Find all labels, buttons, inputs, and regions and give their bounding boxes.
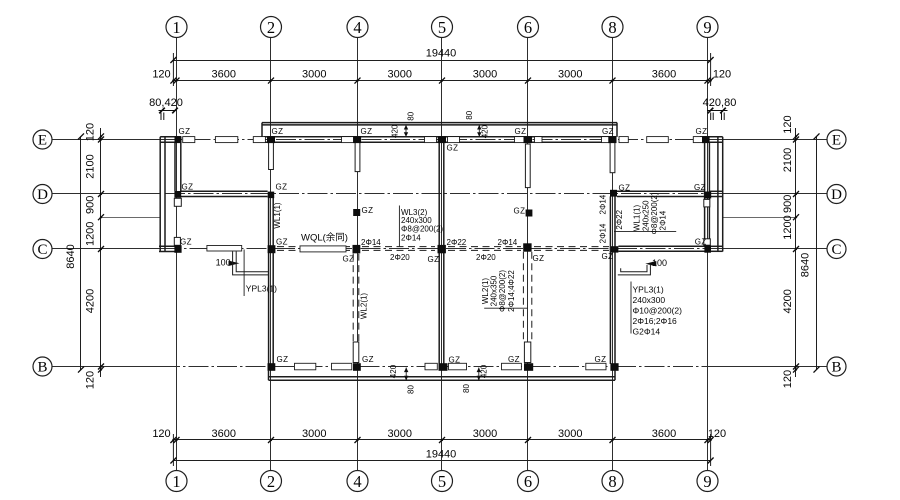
beam cap rect above B axis6 — [524, 342, 530, 363]
lintel E left of 9 — [693, 137, 703, 143]
wall D row axis9-outer — [709, 190, 722, 192]
top dim texts — [149, 48, 736, 110]
grid line axis 1 — [176, 38, 178, 471]
svg-text:3600: 3600 — [212, 428, 236, 440]
GZ COLUMN SQUARES — [174, 136, 711, 371]
extension line left outer edge top — [172, 53, 174, 86]
bubble 9 top — [697, 17, 718, 38]
extension line right outer edge top — [710, 53, 712, 86]
column GZ E-6 — [524, 136, 533, 143]
svg-text:120: 120 — [152, 69, 170, 81]
right overall dim line 8640 — [816, 136, 818, 369]
left dim texts rotated — [65, 123, 97, 389]
bubble 2 top — [261, 17, 282, 38]
svg-text:420,80: 420,80 — [703, 97, 737, 109]
svg-text:4: 4 — [353, 472, 361, 491]
beam rect above C axis1 — [174, 237, 180, 245]
svg-text:2Φ20: 2Φ20 — [476, 253, 496, 262]
svg-text:E: E — [38, 133, 47, 149]
column GZ E-5 — [438, 136, 446, 143]
bubble E left — [33, 130, 52, 149]
svg-text:6: 6 — [524, 472, 532, 491]
svg-text:3000: 3000 — [473, 428, 497, 440]
grid line axis 8 — [612, 38, 614, 471]
svg-text:2Φ14: 2Φ14 — [598, 223, 607, 243]
svg-text:GZ: GZ — [595, 355, 607, 364]
cantilever beam step left — [233, 252, 268, 275]
column GZ B-2 — [268, 363, 276, 371]
svg-text:100: 100 — [216, 258, 231, 268]
svg-text:120: 120 — [85, 123, 97, 141]
svg-text:19440: 19440 — [426, 449, 457, 461]
column GZ B-8 — [610, 363, 618, 371]
lintel E left of 5 — [425, 137, 437, 143]
grid line axis 6 — [527, 38, 529, 471]
cantilever beam step right — [618, 265, 651, 275]
lintel E left of 8 — [602, 137, 611, 143]
column GZ E-1 — [175, 136, 182, 143]
svg-text:3600: 3600 — [652, 69, 676, 81]
lintel E right of 8 — [619, 137, 628, 143]
lintel C WQL beam — [300, 246, 346, 252]
svg-text:G2Φ14: G2Φ14 — [633, 327, 661, 337]
beam spec block YPL3(1) right — [633, 285, 683, 337]
bubble 8 top — [602, 17, 623, 38]
svg-text:2Φ22: 2Φ22 — [615, 209, 624, 229]
svg-text:Φ8@200(2): Φ8@200(2) — [401, 225, 443, 234]
grid line axis C interior — [161, 248, 721, 250]
eaves offset dim 420/80 bottom near axis5 left — [389, 364, 416, 394]
svg-text:D: D — [831, 187, 842, 203]
beam C row dashed 2-4 — [277, 246, 350, 248]
offset arrow left — [229, 261, 240, 266]
svg-text:2Φ14: 2Φ14 — [598, 194, 607, 214]
bubble 8 bottom — [602, 471, 623, 492]
beam spec block WL2(1) axis6 leader — [484, 307, 528, 309]
grid line axis D margins — [52, 193, 160, 195]
lintel B right of 5 — [449, 363, 467, 370]
svg-text:3000: 3000 — [473, 69, 497, 81]
lintel B left of 6 — [502, 363, 522, 370]
tick dots — [100, 79, 797, 441]
svg-text:4200: 4200 — [782, 289, 794, 313]
beam rect above C axis9 — [704, 239, 711, 245]
grid line axis E margins — [52, 139, 162, 141]
GZ LABELS — [179, 127, 708, 365]
svg-text:GZ: GZ — [449, 356, 461, 365]
hanging beam rect below D axis1 — [174, 198, 181, 206]
offset arrow right — [645, 261, 656, 266]
svg-text:YPL3(1): YPL3(1) — [633, 285, 664, 295]
svg-text:120: 120 — [713, 69, 731, 81]
svg-text:9: 9 — [703, 18, 711, 37]
svg-text:GZ: GZ — [180, 238, 192, 247]
svg-text:GZ: GZ — [276, 183, 288, 192]
svg-text:80: 80 — [407, 111, 416, 120]
svg-text:120: 120 — [85, 371, 97, 389]
lintel E 1-2 a — [183, 137, 195, 143]
svg-text:19440: 19440 — [426, 48, 457, 60]
beam C row dashed 5-6 — [448, 246, 521, 248]
lintel E left of 6 — [515, 137, 527, 143]
svg-text:240x300: 240x300 — [633, 295, 666, 305]
mini dim marks top-right near axis 9 — [707, 108, 728, 120]
wall E row main (axis 2 to 8) — [264, 136, 616, 138]
svg-text:3000: 3000 — [302, 428, 326, 440]
beam spec block YPL3(1) right leader — [630, 282, 632, 334]
svg-text:GZ: GZ — [619, 184, 631, 193]
column GZ C-6 — [523, 243, 531, 251]
GRIDLINES — [177, 38, 708, 471]
beam spec block WL1(1) axis8-9 leader — [614, 231, 676, 233]
svg-text:WL1(1): WL1(1) — [273, 202, 282, 229]
lintel E right of 6 — [535, 137, 543, 143]
bottom dim texts — [152, 428, 726, 461]
beam WL2(1) axis4 C-B — [352, 254, 354, 342]
column GZ C-4 — [353, 245, 361, 253]
svg-text:GZ: GZ — [602, 252, 614, 261]
hanging beam rect below E axis6 — [525, 144, 530, 188]
eaves offset dim 420/80 top near axis5 left — [391, 111, 416, 138]
svg-text:80: 80 — [462, 384, 471, 393]
svg-text:2Φ20: 2Φ20 — [390, 253, 410, 262]
column GZ B-4 — [353, 363, 361, 371]
grid line axis C margins — [52, 248, 161, 250]
svg-text:GZ: GZ — [695, 238, 707, 247]
bubble 1 bottom — [166, 471, 187, 492]
column GZ mid-4 — [353, 209, 360, 216]
beam spec block WL3(2) leader — [398, 206, 400, 247]
tick marks right chain — [793, 133, 820, 372]
wall C row axis8-9 — [618, 245, 704, 247]
bubble C left — [33, 240, 52, 259]
svg-text:1: 1 — [172, 472, 180, 491]
svg-text:120: 120 — [708, 428, 726, 440]
svg-text:GZ: GZ — [428, 255, 440, 264]
bubble D right — [827, 185, 846, 204]
svg-text:1: 1 — [172, 18, 180, 37]
hanging beam rect below E axis2 — [269, 142, 274, 169]
hanging beam rect below D axis9 — [704, 199, 710, 207]
bubble 1 top — [166, 17, 187, 38]
right chain dim line — [795, 128, 797, 377]
svg-text:80: 80 — [465, 110, 474, 119]
grid line axis D interior — [165, 193, 721, 195]
tick marks bottom chain — [170, 437, 713, 464]
svg-text:B: B — [831, 360, 841, 376]
svg-text:2Φ14: 2Φ14 — [361, 238, 381, 247]
svg-text:GZ: GZ — [276, 238, 288, 247]
wall C row porch bottom — [159, 245, 181, 247]
svg-text:3000: 3000 — [558, 69, 582, 81]
svg-text:3600: 3600 — [652, 428, 676, 440]
svg-text:YPL3(1): YPL3(1) — [246, 284, 277, 294]
tick marks top chain — [170, 57, 713, 84]
svg-text:2100: 2100 — [782, 148, 794, 172]
column GZ E-4 — [353, 136, 361, 143]
LINTEL RECTS E ROW — [183, 137, 704, 370]
svg-text:GZ: GZ — [362, 355, 374, 364]
extension line left outer edge bottom — [172, 434, 174, 466]
svg-text:3000: 3000 — [302, 69, 326, 81]
intermediate 900 line right — [723, 217, 796, 219]
svg-text:GZ: GZ — [179, 127, 191, 136]
svg-text:2Φ14: 2Φ14 — [659, 210, 668, 230]
svg-text:2: 2 — [267, 18, 275, 37]
svg-text:D: D — [37, 187, 48, 203]
WALLS — [159, 123, 723, 381]
grid line axis 2 — [270, 38, 272, 471]
eaves line below B — [269, 376, 616, 378]
svg-text:420: 420 — [481, 124, 490, 138]
bubble E right — [827, 130, 846, 149]
top chain dim line — [173, 80, 710, 82]
intermediate 900 line left — [101, 217, 161, 219]
svg-text:GZ: GZ — [602, 127, 614, 136]
grid line axis B interior — [160, 366, 721, 368]
beam spec block WL3(2) — [401, 208, 443, 243]
column GZ B-5 — [439, 363, 448, 371]
beam spec block WL1(1) axis8-9 rotated — [633, 192, 668, 234]
lintel E 1-2 b — [215, 137, 237, 143]
wall C row axis9-outer — [709, 245, 722, 247]
svg-text:GZ: GZ — [514, 207, 526, 216]
svg-text:900: 900 — [782, 195, 794, 213]
svg-text:1200: 1200 — [782, 215, 794, 239]
svg-text:80,420: 80,420 — [149, 97, 183, 109]
bubble 4 bottom — [347, 471, 368, 492]
svg-text:2: 2 — [267, 472, 275, 491]
svg-text:6: 6 — [524, 18, 532, 37]
lintel E 1-2 c — [253, 137, 265, 143]
eaves offset dim 420/80 top near axis5 right — [465, 110, 490, 138]
grid line axis 4 — [357, 38, 359, 471]
svg-text:E: E — [832, 133, 841, 149]
svg-text:3000: 3000 — [388, 69, 412, 81]
eaves line above E — [262, 122, 617, 124]
column GZ E-2 — [267, 136, 275, 143]
bubble 5 top — [432, 17, 453, 38]
svg-text:GZ: GZ — [361, 127, 373, 136]
beam C row dashed 4-5 — [362, 246, 435, 248]
svg-text:2Φ14: 2Φ14 — [401, 233, 421, 242]
bubble D left — [33, 185, 52, 204]
lintel B left of 8 — [586, 363, 606, 370]
hanging beam rect below E axis8 — [610, 142, 615, 173]
lintel B left of 4 — [332, 363, 352, 370]
column GZ D-8 — [610, 190, 617, 197]
svg-text:9: 9 — [703, 472, 711, 491]
svg-text:5: 5 — [438, 18, 446, 37]
lintel B left of 5 — [425, 363, 437, 370]
svg-text:GZ: GZ — [508, 355, 520, 364]
svg-text:2100: 2100 — [85, 154, 97, 178]
grid line axis 5 — [441, 38, 443, 471]
wall axis5 vertical E to B — [438, 142, 440, 364]
svg-text:WL2(1): WL2(1) — [359, 293, 368, 320]
column GZ B-6 — [524, 363, 533, 371]
svg-text:8640: 8640 — [65, 244, 77, 268]
column GZ C-8 — [611, 246, 618, 252]
bubble B right — [827, 357, 846, 376]
eaves offset dim 420/80 bottom near axis5 right — [462, 364, 489, 393]
beam cap rect above B axis4 — [353, 342, 359, 363]
left chain dim line — [100, 128, 102, 377]
svg-text:C: C — [831, 242, 841, 258]
column GZ E-8 — [608, 136, 616, 143]
bubble 2 bottom — [261, 471, 282, 492]
svg-text:4200: 4200 — [85, 289, 97, 313]
wall axis9 vertical E to C — [704, 142, 706, 245]
svg-text:8: 8 — [608, 18, 616, 37]
beam label YPL3(1) left leader — [243, 250, 245, 297]
column GZ D-1 — [174, 191, 181, 198]
svg-text:420: 420 — [391, 124, 400, 138]
svg-text:120: 120 — [782, 115, 794, 133]
wall axis2 vertical D to B — [268, 198, 270, 364]
svg-text:GZ: GZ — [343, 255, 355, 264]
svg-text:3600: 3600 — [212, 69, 236, 81]
bubble C right — [827, 240, 846, 259]
column GZ mid-6 — [526, 210, 533, 217]
top overall dim line 19440 — [173, 60, 710, 62]
beam C row dashed 6-8 — [534, 246, 609, 248]
tick marks left chain — [78, 133, 104, 372]
hanging beam rect below E axis4 — [355, 142, 360, 171]
wall E row right corner (9 to outer) — [700, 136, 723, 138]
svg-text:8: 8 — [608, 472, 616, 491]
svg-text:WQL(余同): WQL(余同) — [301, 232, 348, 244]
svg-text:3000: 3000 — [558, 428, 582, 440]
svg-text:GZ: GZ — [447, 144, 459, 153]
column GZ E-9 — [702, 136, 710, 143]
svg-text:120: 120 — [782, 370, 794, 388]
column GZ C-5 — [438, 245, 446, 253]
svg-text:2Φ14;4Φ22: 2Φ14;4Φ22 — [507, 270, 516, 312]
DIMENSIONS — [81, 53, 817, 466]
svg-text:GZ: GZ — [277, 355, 289, 364]
column GZ D-9 — [704, 192, 711, 199]
beam WL2(1) axis6 C-B — [522, 252, 524, 342]
svg-text:5: 5 — [438, 472, 446, 491]
column GZ C-2 — [268, 245, 276, 253]
svg-text:GZ: GZ — [533, 254, 545, 263]
bottom chain dim line — [173, 439, 710, 441]
lintel B right of 2 — [295, 363, 316, 370]
grid line axis E interior — [162, 139, 721, 141]
svg-text:2Φ14: 2Φ14 — [498, 238, 518, 247]
column GZ C-1 — [174, 245, 181, 253]
lintel C 1-2 — [207, 246, 242, 252]
lintel E right of 5 — [448, 137, 460, 143]
left porch outer wall vertical — [159, 137, 161, 252]
bubble 6 top — [518, 17, 539, 38]
bubble 5 bottom — [432, 471, 453, 492]
svg-text:420: 420 — [480, 364, 489, 378]
column GZ C-9 — [704, 245, 711, 252]
svg-text:GZ: GZ — [182, 183, 194, 192]
lintel E 8-9 mid — [647, 137, 669, 143]
left overall dim line 8640 — [80, 136, 82, 369]
bubble B left — [33, 357, 52, 376]
svg-text:120: 120 — [152, 428, 170, 440]
svg-text:GZ: GZ — [362, 206, 374, 215]
svg-text:420: 420 — [389, 364, 398, 378]
bottom overall dim line 19440 — [173, 460, 710, 462]
svg-text:4: 4 — [353, 18, 361, 37]
svg-text:GZ: GZ — [515, 127, 527, 136]
column GZ D-2 — [268, 192, 275, 199]
svg-text:GZ: GZ — [272, 127, 284, 136]
svg-text:8640: 8640 — [800, 253, 812, 277]
svg-text:80: 80 — [407, 385, 416, 394]
lintel E left of 4 — [342, 137, 354, 143]
dashed beam double lines — [277, 247, 609, 342]
svg-text:900: 900 — [85, 196, 97, 214]
bubble 9 bottom — [697, 471, 718, 492]
svg-text:GZ: GZ — [696, 127, 708, 136]
svg-text:GZ: GZ — [694, 183, 706, 192]
grid line axis 9 — [707, 38, 709, 471]
grid line axis B margins — [52, 366, 160, 368]
svg-text:1200: 1200 — [85, 222, 97, 246]
svg-text:2Φ16;2Φ16: 2Φ16;2Φ16 — [633, 316, 678, 326]
svg-text:3000: 3000 — [388, 428, 412, 440]
bubble 6 bottom — [518, 471, 539, 492]
svg-text:Φ10@200(2): Φ10@200(2) — [633, 306, 683, 316]
extension line right outer edge bottom — [710, 434, 712, 466]
mini dim marks top-left near axis 1 — [159, 108, 178, 120]
wall D row axis8-9 — [617, 190, 705, 192]
svg-text:C: C — [37, 242, 47, 258]
beam spec block WL2(1) axis6 rotated — [481, 270, 516, 312]
right dim texts rotated — [782, 115, 812, 388]
wall axis1 vertical E to D — [174, 142, 176, 191]
right outer wall vertical — [717, 137, 719, 252]
wall axis8 vertical D to B — [609, 196, 611, 364]
svg-text:B: B — [37, 360, 47, 376]
wall E row porch left — [160, 136, 181, 138]
svg-text:2Φ22: 2Φ22 — [447, 238, 467, 247]
bubble 4 top — [347, 17, 368, 38]
wall D row axis1-2 — [181, 190, 268, 192]
